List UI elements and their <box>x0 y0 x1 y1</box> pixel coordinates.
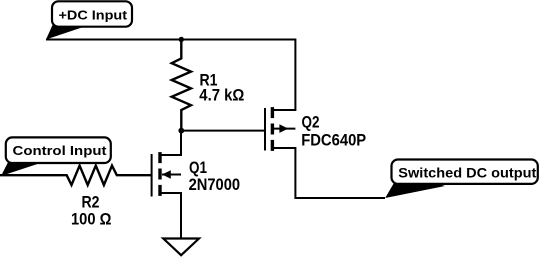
svg-text:R2: R2 <box>82 194 100 212</box>
svg-text:Q1: Q1 <box>189 159 207 177</box>
svg-text:Control Input: Control Input <box>13 143 108 158</box>
svg-text:100 Ω: 100 Ω <box>71 210 111 228</box>
svg-text:4.7 kΩ: 4.7 kΩ <box>199 87 244 105</box>
svg-text:+DC Input: +DC Input <box>59 7 128 22</box>
svg-text:Switched DC output: Switched DC output <box>398 164 536 180</box>
svg-text:2N7000: 2N7000 <box>189 176 241 194</box>
svg-text:FDC640P: FDC640P <box>301 132 366 150</box>
svg-text:Q2: Q2 <box>302 113 320 131</box>
